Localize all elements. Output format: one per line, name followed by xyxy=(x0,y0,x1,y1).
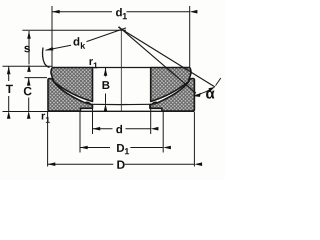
dk leader line xyxy=(46,45,72,50)
dimension D xyxy=(48,163,114,165)
dimension d1 (top) xyxy=(52,11,112,13)
angle dimension arc alpha xyxy=(195,88,214,96)
top face extension across bore xyxy=(93,67,151,69)
sphere bottom line across bore xyxy=(86,103,157,105)
D extension lines xyxy=(47,112,49,167)
d extension lines xyxy=(92,105,94,134)
label alpha xyxy=(206,90,214,98)
dimension d (bottom) xyxy=(93,128,113,130)
washer W1 left section (shaft washer, hatched) xyxy=(51,68,93,102)
label dk xyxy=(73,37,79,45)
d1 extension line left xyxy=(51,6,53,67)
label r1 bottom left xyxy=(42,114,45,120)
dimension B (in bore) xyxy=(105,68,107,77)
C top extension line xyxy=(25,77,48,79)
angle line A from apex xyxy=(118,27,215,87)
bottom face silhouette line xyxy=(48,110,194,112)
dimension T xyxy=(8,67,10,81)
washer W1 right section (shaft washer, hatched) xyxy=(151,68,191,102)
angle line B from apex xyxy=(119,27,196,94)
T/C bottom extension line xyxy=(3,111,49,113)
dimension s (left) xyxy=(28,31,30,64)
apex horizontal line (s reference) xyxy=(22,29,126,31)
label r1 top xyxy=(90,59,93,65)
axis center line xyxy=(120,29,122,111)
T top extension line xyxy=(3,65,52,67)
washer W2 left section (housing washer, hatched) xyxy=(48,79,93,112)
dimension D1 xyxy=(80,147,110,149)
D1 extension lines xyxy=(79,112,81,153)
d1 extension line right xyxy=(189,6,191,68)
dimension C xyxy=(28,78,30,83)
washer W2 right section (housing washer, hatched) xyxy=(150,79,195,112)
sphere silhouette arc (dk) xyxy=(43,48,50,68)
